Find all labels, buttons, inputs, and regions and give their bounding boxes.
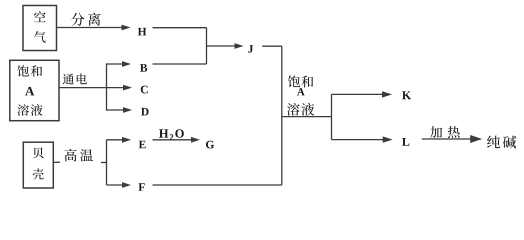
node F [138,183,144,191]
label rongye right [287,103,314,116]
arrow ->F [107,184,124,186]
label A right [297,88,305,95]
label bei (shell-1) [33,148,44,159]
label kong (air-1) [34,11,46,22]
wire J to right vertical [262,45,282,47]
wire shell to gaowen [54,161,61,163]
label qi (air-2) [34,31,46,43]
wire electrolysis feed [59,87,107,89]
arrow ->B [107,63,124,65]
arrow ->K [332,93,384,95]
node C [141,86,148,94]
wire gaowen to EF branch [101,162,107,164]
label ke (shell-2) [33,168,44,179]
wire KL vertical [331,94,333,139]
wire BCD branch vertical [106,63,108,110]
box: air [23,6,57,51]
box: saturated A solution [10,60,59,120]
label rongye (solution) [17,104,42,116]
label A in box2 [25,87,34,96]
node D [141,108,149,116]
wire B to junction [153,63,207,65]
arrow ->E [107,139,124,141]
arrow air->H [57,27,124,29]
label baohe right [288,75,313,87]
wire F to right vertical [153,184,282,186]
arrow E->G (H2O) [153,139,193,141]
node B [140,64,147,72]
label H2O [159,129,184,140]
node J [248,45,253,53]
box: shell [23,142,53,188]
wire junction vertical [206,28,208,64]
label gaowen (high temp) [64,149,93,162]
arrow ->C [107,87,125,89]
arrow junction->J [207,45,237,47]
wire H to junction [153,27,207,29]
label fenli (separation) [71,13,100,26]
arrow ->D [107,109,125,111]
arrow L->soda (heating) [422,138,472,140]
arrow ->L [332,139,385,141]
label baohe (saturated) [17,65,42,77]
wire right vertical [281,46,283,185]
node E [139,141,146,149]
label tongdian (electrify) [63,73,87,84]
node G [206,141,214,149]
wire EF branch vertical [106,140,108,185]
wire under right node [282,116,332,118]
node H [138,28,147,36]
node L [402,138,409,146]
label jiare (heating) [430,126,460,138]
label chunjian (soda ash) [487,136,516,149]
node K [402,91,411,99]
